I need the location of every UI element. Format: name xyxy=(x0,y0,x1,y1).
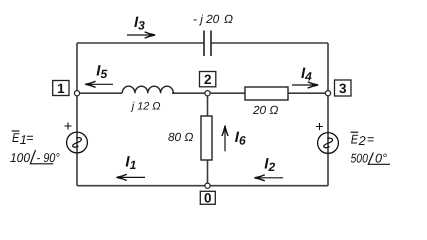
svg-text:20 Ω: 20 Ω xyxy=(252,103,278,117)
svg-text:0: 0 xyxy=(204,190,212,205)
svg-text:- 90°: - 90° xyxy=(37,151,60,165)
svg-text:I6: I6 xyxy=(235,129,246,148)
svg-text:Ω: Ω xyxy=(224,12,233,26)
svg-text:j 12 Ω: j 12 Ω xyxy=(130,101,161,113)
svg-text:0°: 0° xyxy=(375,151,387,165)
svg-text:3: 3 xyxy=(339,81,347,96)
svg-text:1: 1 xyxy=(57,81,65,96)
svg-text:=: = xyxy=(367,132,374,146)
svg-text:100: 100 xyxy=(10,151,30,165)
svg-text:2: 2 xyxy=(204,72,212,87)
svg-text:2: 2 xyxy=(358,134,366,148)
svg-text:500: 500 xyxy=(351,151,368,165)
svg-text:I3: I3 xyxy=(134,14,145,33)
svg-text:- j 20: - j 20 xyxy=(193,12,220,26)
svg-text:I1: I1 xyxy=(125,154,136,173)
svg-text:=: = xyxy=(26,131,33,145)
svg-text:E: E xyxy=(351,132,359,146)
svg-text:I5: I5 xyxy=(96,63,107,82)
svg-text:I4: I4 xyxy=(301,65,312,84)
svg-text:I2: I2 xyxy=(264,156,275,175)
svg-text:E: E xyxy=(12,131,20,145)
svg-text:80 Ω: 80 Ω xyxy=(168,130,193,144)
